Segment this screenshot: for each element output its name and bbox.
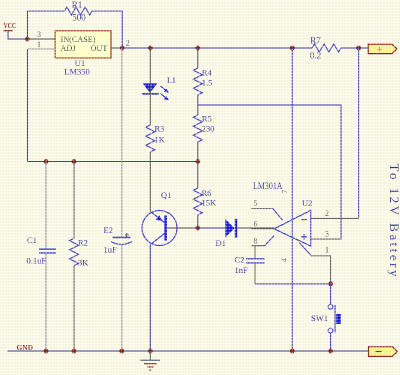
wire R2 lower lead [73,266,75,351]
capacitor E2 [111,233,132,245]
connector plus terminal [368,44,397,54]
wire ADJ net vertical [27,49,29,162]
junction E2 bottom [119,349,124,354]
junction Q1 bottom [148,349,153,354]
wire switch upper lead [330,284,332,304]
junction OUT node [120,46,125,51]
resistor R6 [193,188,202,215]
wire ground rail [8,350,369,352]
wire pin2 to R7 junction vertical [358,48,360,218]
junction base node [195,226,200,231]
power VCC [4,21,17,31]
pin 2 wire [111,47,122,49]
wire R4 top lead [197,48,199,68]
junction R5 bottom [195,159,200,164]
wire top rail right segment [92,11,122,48]
wire rail to plus connector [341,47,368,49]
wire VCC stub [8,31,27,39]
wire switch lower lead [330,333,332,351]
wire R5 bottom lead [197,142,199,162]
wire C1 upper lead [45,162,47,250]
op-amp U2 LM301A [274,210,311,246]
junction opamp V+ [290,46,295,51]
junction opamp V- bottom [290,349,295,354]
pin 6 wire [252,228,275,230]
junction LED top [148,46,153,51]
resistor R7 [312,44,341,52]
wire ADJ net horizontal [28,161,198,163]
wire R6 bottom lead [197,215,199,228]
junction R2 bottom [72,349,77,354]
resistor R4 [193,68,202,95]
wire C1 lower lead [45,253,47,351]
capacitor C2 [246,259,265,263]
wire R4 R5 link [197,95,199,115]
pin 1 wire [311,256,331,284]
wire C2 lower lead [254,263,256,284]
junction R7 right [356,46,361,51]
ground symbol [141,351,161,370]
wire Q1 collector to ground rail [149,245,151,352]
wire top rail left segment [28,10,65,12]
wire main output rail [122,47,312,49]
wire C2 upper lead [254,246,256,259]
pin 3 wire [311,238,341,240]
wire base node to D1 [198,227,226,229]
pin 8 wire [252,245,265,247]
capacitor C1 [39,249,56,253]
junction R4 top [195,46,200,51]
junction VCC node [25,37,30,42]
pin 5 wire [252,208,273,210]
resistor R2 [70,238,79,265]
wire Q1 base lead [167,227,198,229]
wire feedback tap [198,105,341,239]
wire D1 to opamp pin 6 [237,227,274,229]
pin 8 stub [265,236,275,246]
junction R2 top [72,159,77,164]
diode D1 [225,219,237,238]
wire LED branch upper [149,48,151,125]
connector minus terminal [369,347,398,357]
resistor R5 [193,115,202,142]
wire E2 lower lead [121,245,123,351]
LED L1 [142,83,169,100]
wire R3 to Q1 emitter [149,152,151,212]
pin 1 wire [28,48,56,50]
wire E2 upper lead [121,48,123,237]
pin 1 stub [299,243,310,255]
resistor R1 [65,7,93,15]
wire C2 to switch node [255,283,331,285]
wire R2 upper lead [73,162,75,239]
junction C1 top [44,159,49,164]
wire opamp power vertical [291,48,293,351]
wire R6 top lead [197,162,199,189]
pin 3 wire [27,38,55,40]
switch SW1 [328,304,341,333]
pin 5 stub [273,209,283,221]
junction switch bottom [328,349,333,354]
transistor Q1 [142,211,177,246]
junction switch node [328,281,333,286]
pin 2 wire [311,217,359,219]
op-amp regulator U1 LM350 [55,31,111,58]
junction C1 bottom [44,349,49,354]
wire left vertical upper [27,11,29,39]
resistor R3 [146,125,155,152]
